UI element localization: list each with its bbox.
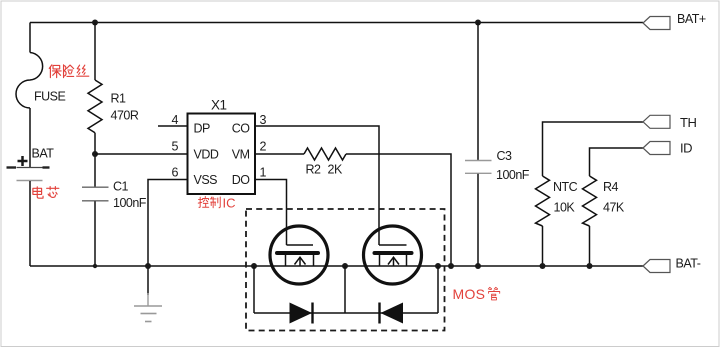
svg-text:10K: 10K xyxy=(554,201,576,215)
svg-text:VSS: VSS xyxy=(194,173,218,187)
svg-text:NTC: NTC xyxy=(553,180,578,194)
junction: top rail / R1 xyxy=(92,20,98,26)
svg-text:C1: C1 xyxy=(113,180,129,194)
transistor Q1 (left MOS) xyxy=(270,226,328,284)
label 电芯 (red) xyxy=(33,187,59,199)
resistor R2 xyxy=(304,148,346,160)
wire: DO pin 1 to left MOS gate xyxy=(255,180,287,246)
fuse FUSE xyxy=(16,53,43,109)
svg-text:BAT-: BAT- xyxy=(676,257,701,271)
pin 4 DP stub xyxy=(158,125,188,127)
wire: R1 bottom to C1 xyxy=(94,133,96,187)
op IC X1 box xyxy=(188,114,256,195)
connector BAT+ xyxy=(643,17,670,30)
svg-text:2: 2 xyxy=(260,140,267,154)
wire: C3 bottom to rail xyxy=(477,174,479,266)
svg-text:4: 4 xyxy=(172,113,179,127)
wire: NTC bottom to rail xyxy=(542,226,544,266)
svg-text:IC: IC xyxy=(223,196,236,211)
wire: left diode drop xyxy=(253,266,255,313)
label MOS管 (red) xyxy=(453,286,500,302)
svg-text:R4: R4 xyxy=(603,180,619,194)
wire: TH lead xyxy=(543,122,644,176)
junction: left diode drop / rail xyxy=(251,263,257,269)
svg-text:C3: C3 xyxy=(497,149,513,163)
wire: C1 bottom to rail xyxy=(94,201,96,266)
junction: R1 / VDD wire xyxy=(92,151,98,157)
svg-text:CO: CO xyxy=(232,122,251,136)
wire: VSS pin 6 to ground drop xyxy=(148,180,188,296)
junction: C1 / bottom rail xyxy=(93,264,97,268)
svg-text:R1: R1 xyxy=(111,92,127,106)
svg-text:X1: X1 xyxy=(211,98,227,113)
wire: R1 top feed xyxy=(94,23,96,81)
wire: left branch from top rail to fuse xyxy=(29,23,31,53)
svg-text:VM: VM xyxy=(232,148,250,162)
svg-text:VDD: VDD xyxy=(194,148,219,162)
svg-text:DP: DP xyxy=(194,122,211,136)
connector TH xyxy=(643,115,670,128)
junction: R4 / bottom rail xyxy=(587,263,593,269)
label 保险丝 (red) xyxy=(49,65,89,78)
capacitor C3 xyxy=(465,161,492,174)
label 控制IC (red) xyxy=(198,196,235,211)
battery BAT (cell) xyxy=(7,156,50,181)
capacitor C1 xyxy=(82,187,109,201)
svg-text:47K: 47K xyxy=(603,201,625,215)
svg-text:6: 6 xyxy=(172,166,179,180)
junction: middle diode drop / rail xyxy=(342,263,348,269)
svg-text:5: 5 xyxy=(172,140,179,154)
connector BAT- xyxy=(643,260,670,273)
svg-text:1: 1 xyxy=(260,166,267,180)
resistor R1 xyxy=(88,80,102,133)
svg-text:2K: 2K xyxy=(328,163,343,177)
svg-text:DO: DO xyxy=(232,173,251,187)
wire: R2 to VM drop to bottom rail xyxy=(346,154,451,266)
svg-text:MOS: MOS xyxy=(453,286,486,302)
wire: diode branch xyxy=(254,312,438,314)
wire: CO pin 3 to right MOS gate xyxy=(255,126,379,245)
wire: middle diode drop xyxy=(344,266,346,313)
junction: VSS drop / bottom rail xyxy=(145,263,151,269)
wire: VDD pin 5 to junction xyxy=(95,153,188,155)
wire: ID lead xyxy=(590,148,644,176)
wire: fuse to battery plus plate xyxy=(29,108,31,167)
junction: top rail / C3 xyxy=(475,20,481,26)
wire: battery minus to bottom rail xyxy=(29,181,31,266)
wire: C3 top feed xyxy=(477,23,479,161)
svg-text:ID: ID xyxy=(680,141,692,156)
junction: right diode drop / rail xyxy=(435,263,441,269)
svg-text:3: 3 xyxy=(260,113,267,127)
junction: NTC / bottom rail xyxy=(540,263,546,269)
resistor R4 xyxy=(583,176,597,226)
svg-text:100nF: 100nF xyxy=(113,196,147,210)
svg-text:BAT: BAT xyxy=(32,147,55,161)
wire: right diode drop xyxy=(437,266,439,313)
dashed box MOS xyxy=(246,209,445,331)
svg-text:100nF: 100nF xyxy=(496,168,530,182)
svg-text:470R: 470R xyxy=(111,109,139,123)
wire: bottom rail to BAT- xyxy=(30,265,643,267)
junction: C3 / bottom rail xyxy=(475,263,481,269)
diode D1 (body diode left) xyxy=(290,303,313,324)
connector ID xyxy=(643,142,670,155)
svg-text:BAT+: BAT+ xyxy=(677,12,706,26)
svg-text:R2: R2 xyxy=(306,163,322,177)
resistor NTC xyxy=(536,176,550,226)
ground xyxy=(134,293,162,322)
diode D2 (body diode right) xyxy=(380,303,404,324)
junction: VM drop / bottom rail xyxy=(448,263,454,269)
wire: R4 bottom to rail xyxy=(589,226,591,266)
transistor Q2 (right MOS) xyxy=(364,226,422,284)
wire: VM pin 2 to R2 xyxy=(255,153,304,155)
wire: top rail to BAT+ xyxy=(30,22,643,24)
svg-text:TH: TH xyxy=(680,115,696,130)
svg-text:FUSE: FUSE xyxy=(34,90,66,104)
